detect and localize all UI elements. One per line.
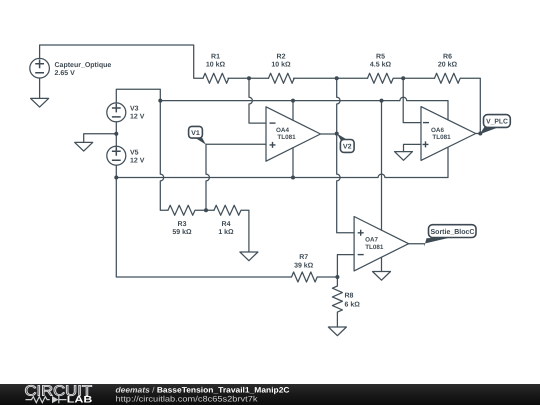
- svg-text:Capteur_Optique: Capteur_Optique: [55, 61, 112, 69]
- svg-text:20 kΩ: 20 kΩ: [438, 61, 458, 69]
- svg-text:V3: V3: [130, 106, 139, 113]
- svg-text:12 V: 12 V: [130, 114, 145, 121]
- svg-text:R5: R5: [376, 54, 385, 61]
- svg-text:2.65 V: 2.65 V: [55, 70, 76, 77]
- svg-text:V_PLC: V_PLC: [486, 119, 508, 126]
- svg-text:R7: R7: [299, 254, 308, 261]
- svg-text:R3: R3: [178, 221, 187, 228]
- svg-text:R1: R1: [211, 54, 220, 61]
- svg-text:10 kΩ: 10 kΩ: [271, 61, 291, 69]
- svg-text:TL081: TL081: [365, 244, 384, 251]
- svg-text:6 kΩ: 6 kΩ: [345, 301, 361, 309]
- svg-text:1 kΩ: 1 kΩ: [218, 228, 234, 236]
- svg-text:OA6: OA6: [431, 127, 444, 134]
- svg-text:LAB: LAB: [67, 395, 93, 405]
- svg-text:V5: V5: [130, 150, 139, 157]
- svg-text:TL081: TL081: [277, 134, 296, 141]
- svg-text:TL081: TL081: [432, 134, 451, 141]
- svg-text:39 kΩ: 39 kΩ: [294, 262, 314, 270]
- svg-text:59 kΩ: 59 kΩ: [172, 228, 192, 236]
- svg-text:V1: V1: [191, 130, 200, 137]
- svg-text:http://circuitlab.com/c8c65s2b: http://circuitlab.com/c8c65s2brvt7k: [116, 394, 259, 403]
- svg-text:OA4: OA4: [276, 127, 289, 134]
- svg-text:10 kΩ: 10 kΩ: [206, 61, 226, 69]
- svg-text:R4: R4: [222, 221, 231, 228]
- svg-text:R8: R8: [345, 292, 354, 299]
- svg-text:R2: R2: [277, 54, 286, 61]
- svg-text:V2: V2: [343, 143, 352, 150]
- svg-text:R6: R6: [443, 54, 452, 61]
- svg-text:deemats / BasseTension_Travail: deemats / BasseTension_Travail1_Manip2C: [116, 385, 290, 394]
- svg-text:Sortie_BlocC: Sortie_BlocC: [431, 227, 475, 236]
- svg-text:12 V: 12 V: [130, 158, 145, 165]
- svg-text:4.5 kΩ: 4.5 kΩ: [370, 61, 392, 69]
- svg-text:OA7: OA7: [365, 237, 378, 244]
